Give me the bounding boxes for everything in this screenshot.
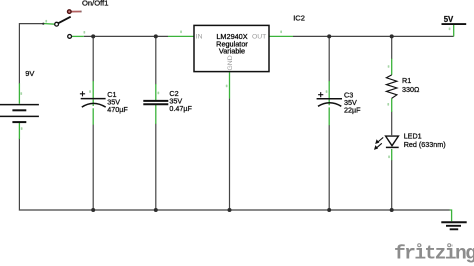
wire C1 branch bottom <box>92 125 94 211</box>
wire top rail switch to IN <box>84 35 168 37</box>
node: regulator GND pin green <box>229 72 231 98</box>
junction top C3 <box>327 34 331 38</box>
fritzing i-dot hollow circles <box>417 243 452 247</box>
node: LED pin greens <box>391 149 393 160</box>
capacitor C1 <box>80 90 129 114</box>
node dot at switch pin1 wire end <box>42 23 44 25</box>
capacitor C3 <box>317 90 362 114</box>
wire battery bottom to ground rail <box>19 139 449 211</box>
C2 plate 2 <box>143 103 168 105</box>
svg-text:9V: 9V <box>25 69 34 78</box>
ground line 1 <box>441 221 466 223</box>
R1 zigzag <box>386 75 397 98</box>
svg-text:GND: GND <box>227 55 234 70</box>
node: regulator OUT pin green <box>269 35 293 37</box>
wire C2 branch top <box>155 36 157 84</box>
svg-text:fritzing: fritzing <box>394 243 474 265</box>
regulator IC2 LM2940X <box>194 13 305 71</box>
svg-text:5V: 5V <box>444 15 454 24</box>
wire regulator GND down <box>229 98 231 210</box>
node: battery pin greens <box>18 83 20 139</box>
regulator box <box>194 25 269 71</box>
C2 plate 1 <box>143 100 168 102</box>
junction top R1 <box>390 34 394 38</box>
svg-text:OUT: OUT <box>252 34 266 41</box>
wire R1 branch top <box>391 36 393 59</box>
junction bottom C2 <box>154 208 158 212</box>
svg-text:0.47µF: 0.47µF <box>169 104 192 113</box>
switch terminal 1 <box>55 22 59 26</box>
battery short plate 1 <box>12 109 26 111</box>
svg-text:On/Off1: On/Off1 <box>82 0 108 7</box>
junction bottom C3 <box>327 208 331 212</box>
battery BAT1 9V <box>0 105 39 123</box>
wire C2 branch bottom <box>155 124 157 211</box>
C1 plus sign <box>80 91 85 96</box>
battery long plate 2 <box>0 115 39 117</box>
battery short plate 2 <box>12 121 26 123</box>
ground symbol <box>441 222 466 229</box>
C3 curved plate <box>318 103 341 107</box>
junction top C2 <box>154 34 158 38</box>
LED cathode bar <box>386 146 399 148</box>
resistor R1 <box>386 75 420 98</box>
node: C3 pin greens <box>328 81 330 125</box>
LED emission arrow 1 <box>377 137 383 142</box>
svg-text:R1: R1 <box>402 76 411 85</box>
svg-text:IN: IN <box>196 34 203 41</box>
C3 plus sign <box>318 92 323 97</box>
battery long plate 1 <box>0 104 39 106</box>
wire R1 to LED <box>391 112 393 136</box>
node: C2 pin greens <box>155 84 157 124</box>
node: 5V pin green <box>453 25 455 37</box>
svg-text:IC2: IC2 <box>293 13 305 22</box>
junction bottom LED <box>390 208 394 212</box>
node: ground pin green <box>450 210 452 221</box>
wire battery top to switch <box>19 24 43 84</box>
ground line 2 <box>446 225 461 227</box>
junction bottom C1 <box>91 208 95 212</box>
node: switch pin2 green <box>72 35 84 37</box>
svg-text:22µF: 22µF <box>344 105 361 114</box>
wire LED branch bottom <box>391 160 393 210</box>
svg-text:470µF: 470µF <box>107 105 128 114</box>
LED emission arrow 2 <box>376 143 382 148</box>
junction top C1 <box>91 34 95 38</box>
switch S1 On/Off1 <box>55 0 109 38</box>
junction bottom GND <box>228 208 232 212</box>
wire top rail OUT to 5V <box>293 35 454 37</box>
red wire end dot <box>68 10 72 14</box>
switch terminal 2 <box>68 35 72 39</box>
switch lever <box>58 17 70 24</box>
ground line 3 <box>450 228 459 230</box>
wire C1 branch top <box>92 36 94 81</box>
node: regulator IN pin green <box>168 35 194 37</box>
node: R1 pin greens <box>391 59 393 112</box>
wire C3 branch bottom <box>328 125 330 210</box>
power symbol 5V <box>442 15 467 24</box>
red dangling wire <box>70 11 81 13</box>
svg-text:Variable: Variable <box>219 47 245 56</box>
C1 curved plate <box>82 103 106 107</box>
wire C3 branch top <box>328 36 330 81</box>
svg-text:Red (633nm): Red (633nm) <box>404 140 446 149</box>
C1 top plate <box>81 98 106 100</box>
5V bar <box>442 23 467 25</box>
C3 top plate <box>317 98 342 100</box>
LED1 <box>374 131 446 150</box>
svg-text:330Ω: 330Ω <box>402 85 420 94</box>
node: switch pin1 green <box>43 23 54 26</box>
pin number tick marks (light green) <box>20 20 450 158</box>
LED triangle <box>386 136 399 146</box>
capacitor C2 <box>143 89 192 113</box>
node: C1 pin greens <box>92 81 94 125</box>
